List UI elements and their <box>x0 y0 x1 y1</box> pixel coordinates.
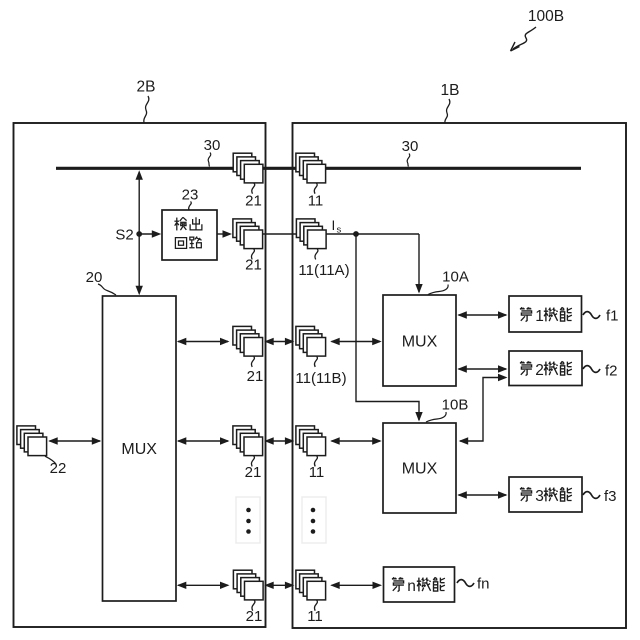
svg-text:11: 11 <box>309 464 325 481</box>
svg-text:1: 1 <box>535 308 544 325</box>
block 2B outer box <box>14 123 266 627</box>
terminal stack 21 row4 <box>233 426 263 456</box>
wire: node down to MUX10A <box>418 234 420 292</box>
wire: MUX20-21 row4 <box>178 440 228 442</box>
wire: gap arrow row3 <box>266 341 294 343</box>
svg-text:11(11A): 11(11A) <box>298 262 349 279</box>
svg-text:f2: f2 <box>605 363 618 380</box>
svg-text:10B: 10B <box>442 397 469 414</box>
svg-text:21: 21 <box>247 368 264 385</box>
terminal stack 11 row5 <box>296 570 326 600</box>
squiggle 30 right <box>407 154 410 167</box>
squiggle 2B <box>144 96 149 123</box>
svg-text:s: s <box>337 225 342 236</box>
wire: detection circuit to terminal 21 <box>217 233 229 235</box>
wire: S2 to detection circuit <box>139 233 158 235</box>
svg-text:30: 30 <box>204 137 221 154</box>
svg-text:11: 11 <box>307 608 323 625</box>
terminal stack 11 row1 <box>296 153 326 183</box>
wire: function2 to MUX10B feedback <box>460 378 504 442</box>
svg-text:MUX: MUX <box>402 334 438 351</box>
terminal stack 21 row1 <box>233 153 263 183</box>
squiggle 10A <box>428 285 448 295</box>
wire: S2 vertical double arrow <box>138 173 140 294</box>
arrow for 100B <box>511 27 537 51</box>
wire: 11 to function-n row5 <box>332 584 381 586</box>
squiggle 20 <box>98 284 116 295</box>
svg-text:21: 21 <box>245 257 262 274</box>
terminal stack 21 row2 <box>233 219 263 249</box>
svg-text:11: 11 <box>308 193 324 210</box>
squiggle 30 left <box>208 153 211 167</box>
svg-text:n: n <box>407 578 416 595</box>
text 検出 <box>174 217 186 230</box>
svg-text:f3: f3 <box>604 488 617 505</box>
squiggle 1B <box>445 99 450 123</box>
svg-text:MUX: MUX <box>121 441 157 458</box>
svg-text:22: 22 <box>50 460 67 477</box>
tilde f2 <box>583 366 600 373</box>
svg-text:2: 2 <box>535 362 544 379</box>
svg-text:I: I <box>332 218 336 233</box>
faint box around right dots <box>302 497 326 543</box>
text 回路 <box>175 238 186 249</box>
svg-text:fn: fn <box>477 576 490 593</box>
svg-text:21: 21 <box>246 608 263 625</box>
wire: gap arrow row5 <box>266 584 294 586</box>
function block f3 <box>509 477 582 512</box>
wire: MUX20-21 row5 <box>178 584 228 586</box>
terminal stack 21 row3 <box>233 326 263 356</box>
detection circuit box 23 <box>162 210 217 260</box>
MUX 10B box <box>383 423 456 513</box>
node dot on S2 line <box>136 231 142 237</box>
svg-text:S2: S2 <box>115 227 133 244</box>
terminal stack 11(11A) row2 <box>296 219 326 249</box>
svg-text:3: 3 <box>535 488 544 505</box>
svg-text:21: 21 <box>245 193 262 210</box>
wire: MUX10A to function2 <box>459 368 507 370</box>
wire: row2 line from terminal 21 to node <box>261 233 420 235</box>
dots left column <box>246 508 251 534</box>
tilde f1 <box>583 312 600 319</box>
tilde fn <box>457 580 474 587</box>
squiggle 10B <box>426 412 446 422</box>
wire: MUX20-21 row3 <box>178 341 228 343</box>
terminal stack 11(11B) row3 <box>296 326 326 356</box>
svg-text:10A: 10A <box>442 269 469 286</box>
svg-text:23: 23 <box>182 187 199 204</box>
svg-text:1B: 1B <box>441 82 460 99</box>
svg-text:20: 20 <box>86 269 103 286</box>
wire: bus line 30 <box>56 167 581 170</box>
terminal stack 22 <box>17 426 47 456</box>
wire: 22 to MUX20 row4 <box>50 440 101 442</box>
terminal stack 21 row5 <box>233 570 263 600</box>
wire: MUX10A to function1 <box>459 314 507 316</box>
function block f1 <box>509 296 582 332</box>
wire: 11B to MUX10A row3 <box>332 341 381 343</box>
wire: gap arrow row4 <box>266 440 294 442</box>
svg-text:MUX: MUX <box>402 461 438 478</box>
MUX 10A box <box>383 295 456 386</box>
squiggle 23 <box>189 202 192 211</box>
svg-text:100B: 100B <box>528 8 564 25</box>
wire: node branch down to MUX10B <box>356 234 419 420</box>
svg-text:21: 21 <box>245 464 262 481</box>
wire: 11 to MUX10B row4 <box>332 440 381 442</box>
tilde f3 <box>583 492 600 499</box>
node dot Is <box>353 231 359 237</box>
faint box around left dots <box>236 497 260 543</box>
svg-text:30: 30 <box>402 138 419 155</box>
function block fn <box>384 567 455 602</box>
svg-text:11(11B): 11(11B) <box>295 370 346 387</box>
function block f2 <box>509 351 582 386</box>
svg-text:2B: 2B <box>137 79 156 96</box>
block 1B outer box <box>293 123 627 628</box>
MUX 20 box <box>103 296 177 601</box>
terminal stack 11 row4 <box>296 426 326 456</box>
dots right column <box>311 508 316 534</box>
wire: MUX10B to function3 <box>459 494 507 496</box>
svg-text:f1: f1 <box>606 308 619 325</box>
